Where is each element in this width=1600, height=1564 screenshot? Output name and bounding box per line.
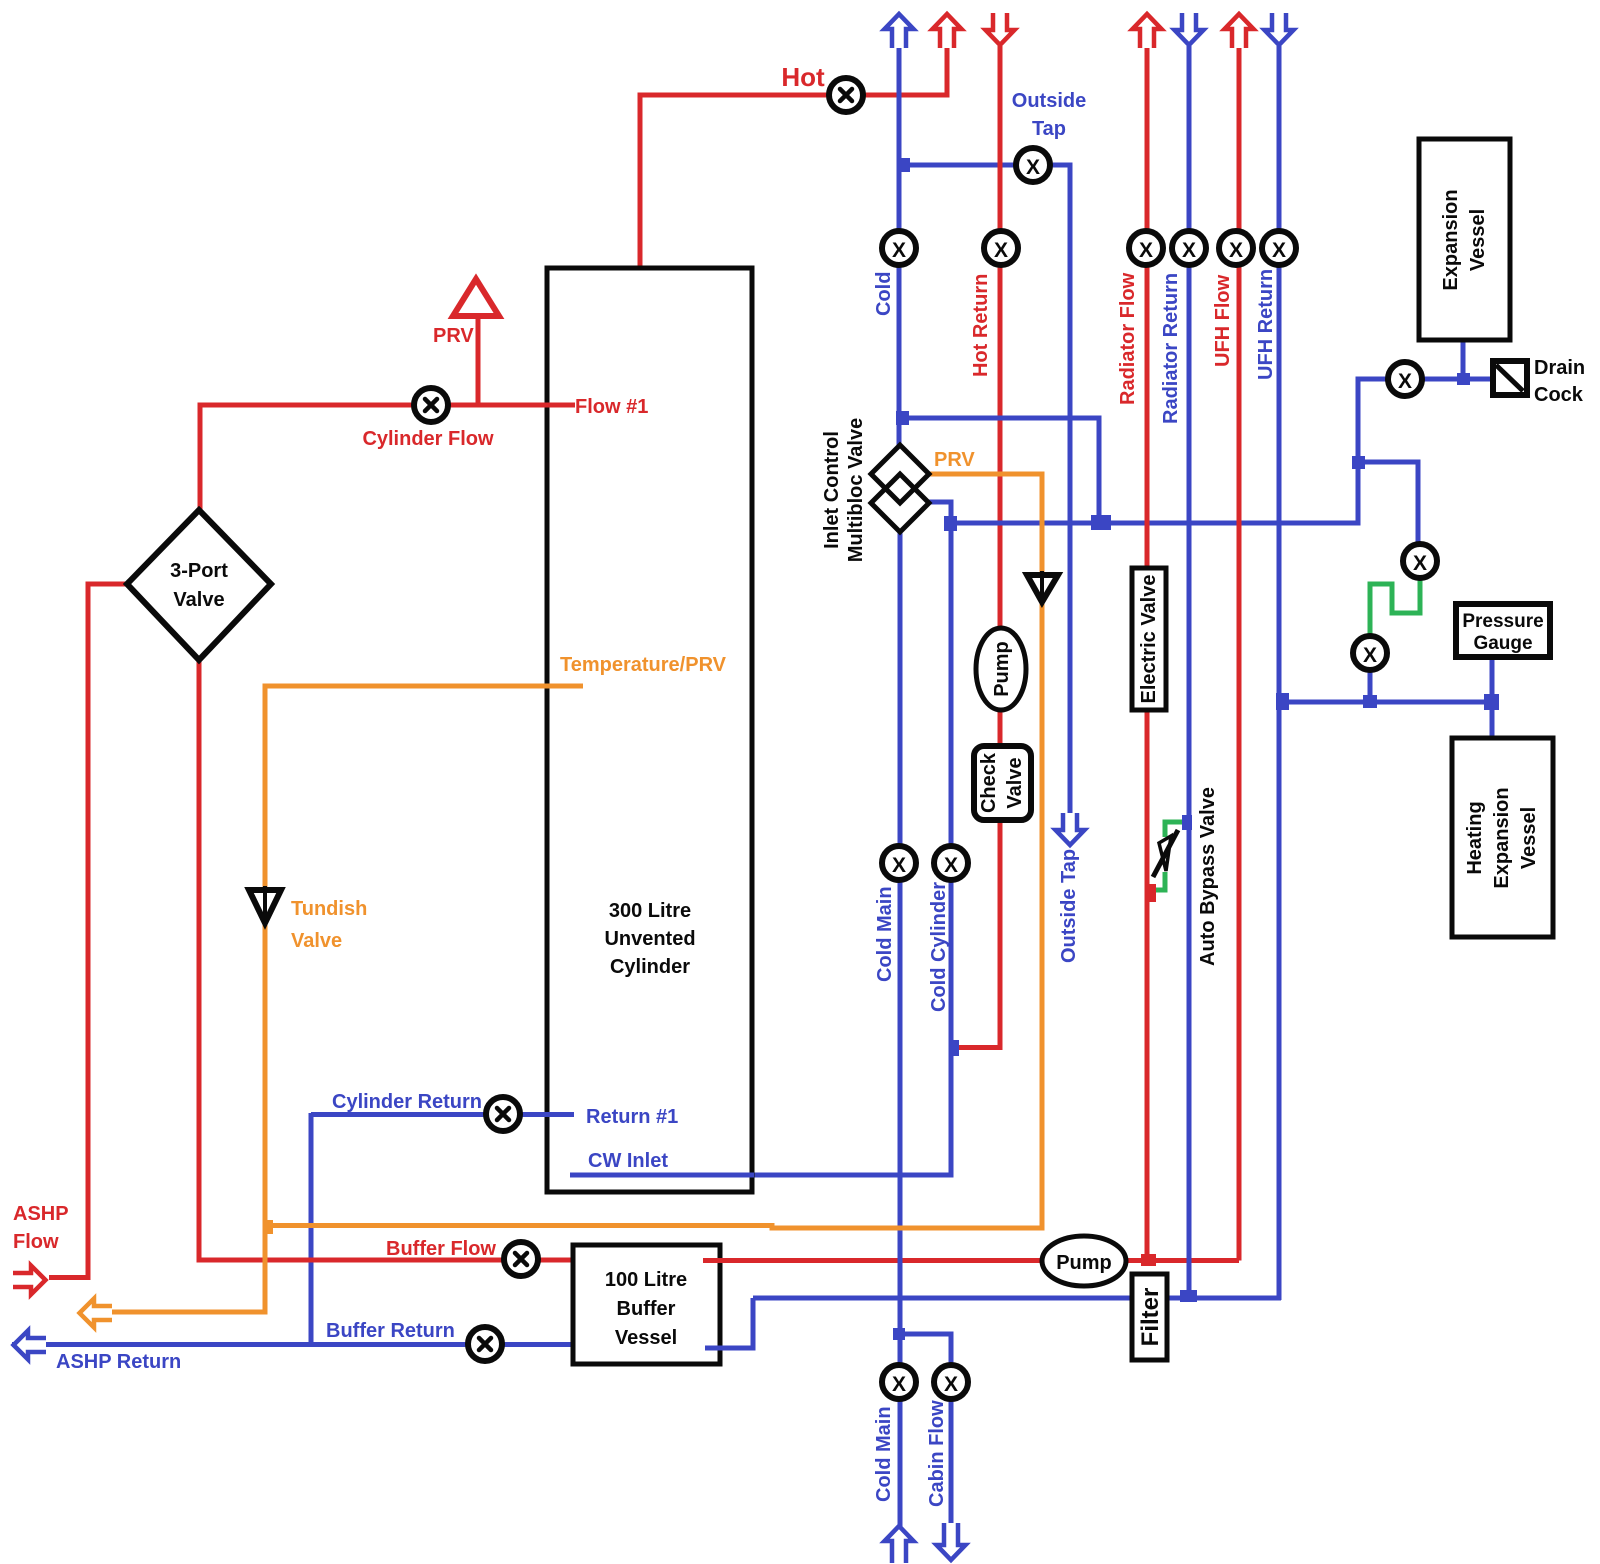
svg-text:ASHP: ASHP [13, 1203, 69, 1225]
svg-text:Pump: Pump [991, 641, 1013, 697]
svg-text:Cylinder: Cylinder [610, 956, 690, 978]
svg-text:X: X [1229, 239, 1243, 262]
svg-text:300 Litre: 300 Litre [609, 900, 691, 922]
svg-text:Expansion: Expansion [1491, 787, 1513, 888]
svg-text:Vessel: Vessel [1467, 209, 1489, 271]
svg-text:Valve: Valve [173, 589, 224, 611]
svg-text:Valve: Valve [1004, 757, 1026, 808]
svg-text:Radiator Flow: Radiator Flow [1117, 272, 1139, 405]
svg-text:Auto Bypass Valve: Auto Bypass Valve [1197, 787, 1219, 966]
svg-text:UFH Flow: UFH Flow [1212, 274, 1234, 367]
svg-text:Buffer Flow: Buffer Flow [386, 1238, 496, 1260]
svg-text:PRV: PRV [934, 449, 975, 471]
svg-text:X: X [1398, 370, 1412, 393]
svg-text:X: X [1363, 644, 1377, 667]
svg-text:3-Port: 3-Port [170, 560, 228, 582]
svg-text:Filter: Filter [1137, 1288, 1164, 1347]
svg-text:Tap: Tap [1032, 118, 1066, 140]
svg-text:Inlet Control: Inlet Control [821, 431, 843, 549]
svg-text:Buffer Return: Buffer Return [326, 1320, 455, 1342]
svg-text:Expansion: Expansion [1440, 189, 1462, 290]
svg-text:Cabin Flow: Cabin Flow [926, 1400, 948, 1507]
svg-text:Radiator Return: Radiator Return [1160, 273, 1182, 424]
svg-text:X: X [994, 239, 1008, 262]
svg-text:Hot: Hot [781, 62, 825, 92]
svg-text:Hot Return: Hot Return [970, 274, 992, 377]
svg-text:X: X [1272, 239, 1286, 262]
svg-text:Outside Tap: Outside Tap [1058, 849, 1080, 963]
svg-text:PRV: PRV [433, 325, 474, 347]
svg-text:Buffer: Buffer [617, 1298, 676, 1320]
svg-text:UFH Return: UFH Return [1255, 269, 1277, 380]
svg-text:Pump: Pump [1056, 1252, 1112, 1274]
svg-text:Return #1: Return #1 [586, 1106, 678, 1128]
svg-text:Cold Main: Cold Main [874, 886, 896, 982]
svg-text:Pressure: Pressure [1462, 611, 1543, 632]
svg-text:Tundish: Tundish [291, 898, 367, 920]
svg-text:X: X [1413, 552, 1427, 575]
svg-text:100 Litre: 100 Litre [605, 1269, 687, 1291]
svg-text:Electric Valve: Electric Valve [1138, 575, 1160, 704]
svg-text:Check: Check [978, 752, 1000, 813]
svg-text:Cold Cylinder: Cold Cylinder [928, 882, 950, 1012]
svg-text:Flow #1: Flow #1 [575, 396, 648, 418]
svg-text:X: X [1026, 156, 1040, 179]
svg-text:Gauge: Gauge [1473, 633, 1532, 654]
svg-text:CW Inlet: CW Inlet [588, 1150, 668, 1172]
svg-text:Vessel: Vessel [1518, 807, 1540, 869]
svg-text:X: X [1182, 239, 1196, 262]
svg-text:X: X [892, 854, 906, 877]
svg-text:Multibloc Valve: Multibloc Valve [845, 418, 867, 562]
svg-text:X: X [892, 1373, 906, 1396]
svg-text:Cold: Cold [873, 272, 895, 316]
svg-text:Flow: Flow [13, 1231, 59, 1253]
svg-text:Cylinder Flow: Cylinder Flow [362, 428, 494, 450]
svg-text:Outside: Outside [1012, 90, 1086, 112]
svg-text:Unvented: Unvented [604, 928, 695, 950]
svg-text:X: X [1139, 239, 1153, 262]
svg-text:X: X [944, 854, 958, 877]
svg-text:Cylinder Return: Cylinder Return [332, 1091, 482, 1113]
svg-text:X: X [944, 1373, 958, 1396]
svg-text:ASHP Return: ASHP Return [56, 1351, 181, 1373]
svg-text:Drain: Drain [1534, 357, 1585, 379]
svg-text:Vessel: Vessel [615, 1327, 677, 1349]
svg-text:Heating: Heating [1464, 801, 1486, 874]
svg-text:Cold Main: Cold Main [873, 1406, 895, 1502]
svg-text:Valve: Valve [291, 930, 342, 952]
svg-text:Temperature/PRV: Temperature/PRV [560, 654, 727, 676]
svg-text:Cock: Cock [1534, 384, 1584, 406]
svg-text:X: X [892, 239, 906, 262]
